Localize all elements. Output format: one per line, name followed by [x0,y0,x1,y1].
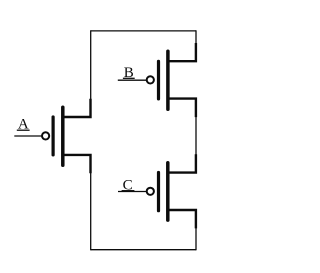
svg-text:A: A [18,117,29,133]
svg-text:C: C [123,177,133,193]
svg-text:B: B [124,65,134,81]
